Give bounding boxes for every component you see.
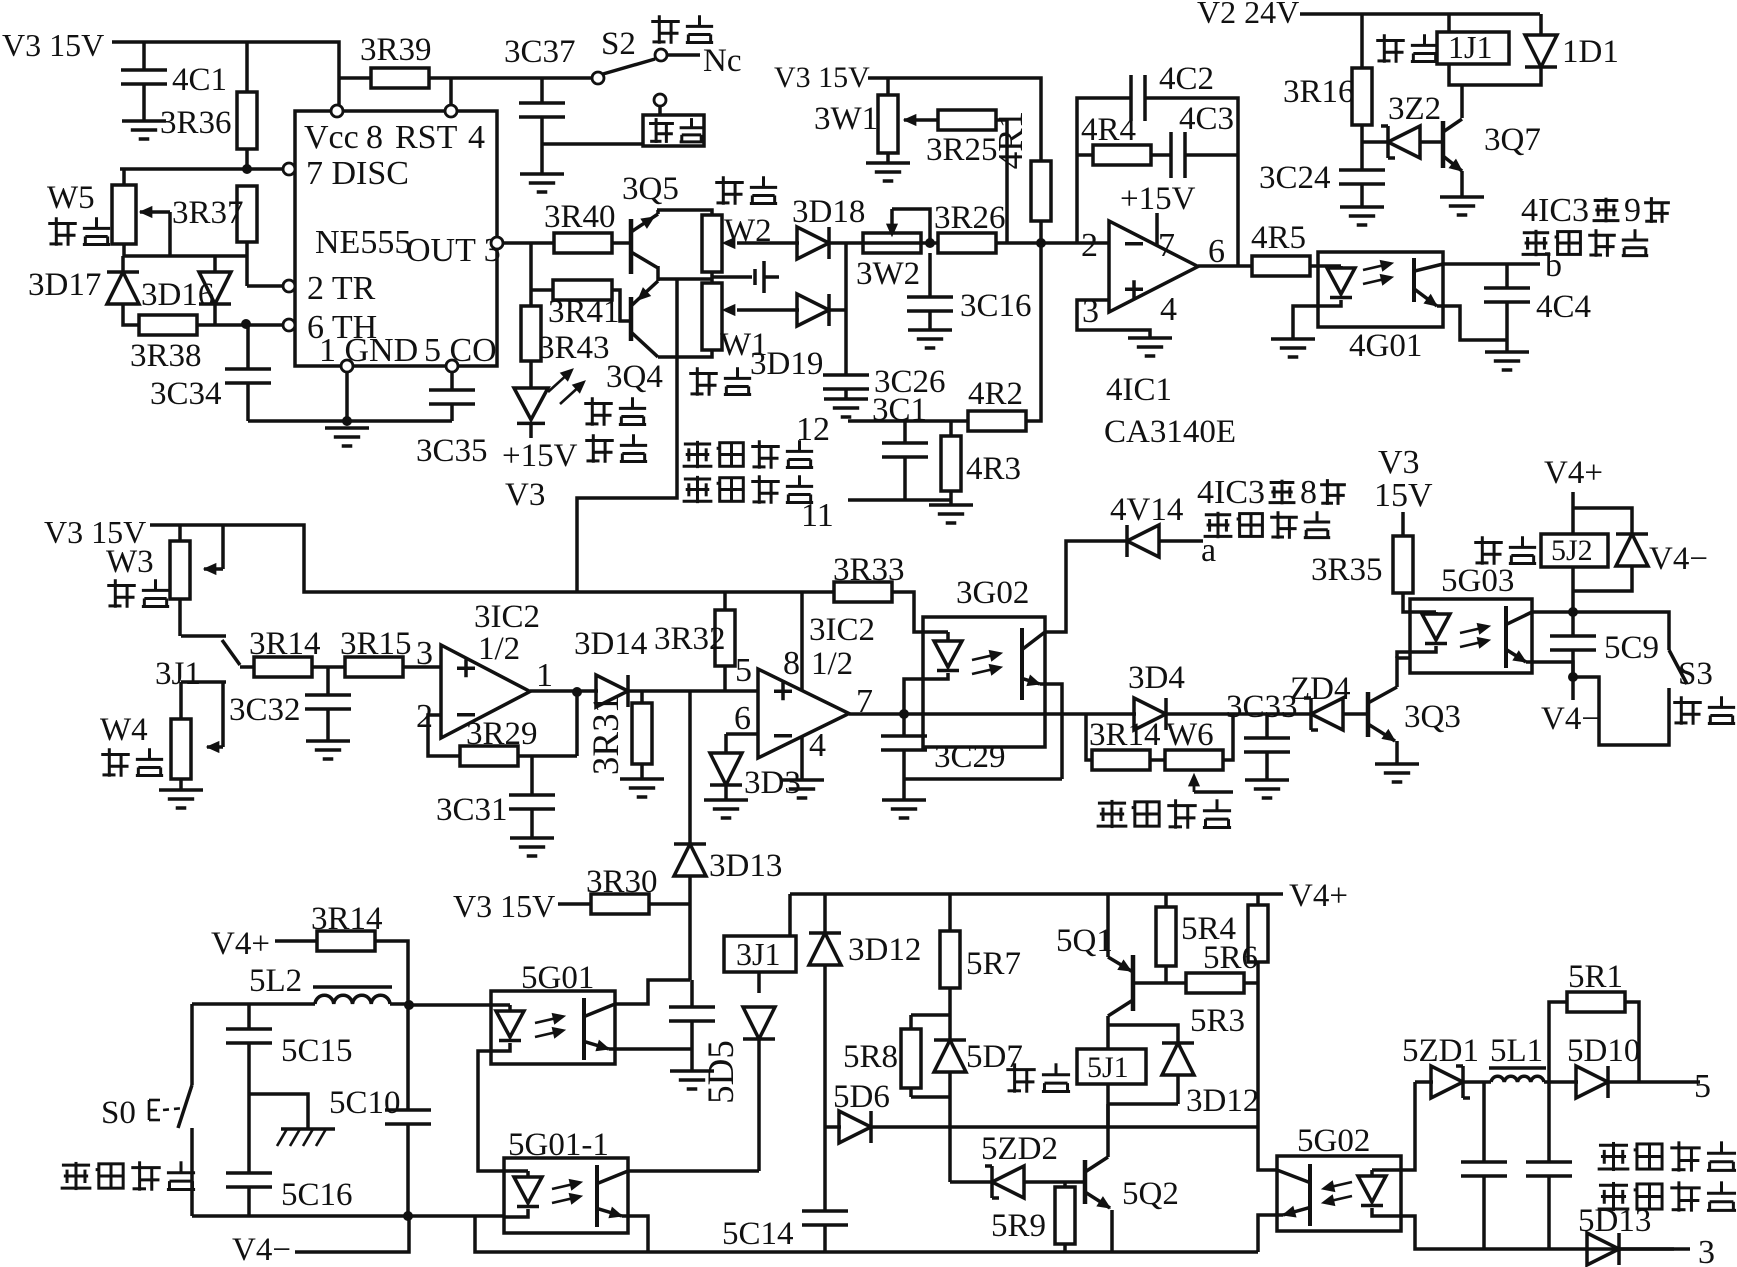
potentiometer 3W2 track <box>863 233 921 253</box>
label 3 <box>1698 1234 1715 1267</box>
diode 3D18 <box>797 227 829 259</box>
diode 5D5 <box>743 1007 775 1039</box>
wire to 4C1 <box>142 42 146 70</box>
svg-text:V4+: V4+ <box>1544 455 1603 491</box>
label 5C16 <box>281 1177 353 1213</box>
ground under 3C31 <box>510 838 554 856</box>
wire OUT to 3R40 <box>503 241 554 245</box>
label 1/2 <box>478 631 520 667</box>
wire 4C3 to right <box>1185 153 1238 157</box>
label 5G01 <box>521 960 594 996</box>
label 3C31 <box>436 792 508 828</box>
pin 3 loop of 4IC1 <box>1077 300 1150 338</box>
label 3J1 <box>155 656 201 692</box>
label label torch-button <box>61 1161 195 1190</box>
wire 5L2 right <box>390 1002 409 1006</box>
wire to 4R4 <box>1077 153 1093 157</box>
wire rail to W3 <box>178 525 182 541</box>
label 5D10 <box>1567 1033 1640 1069</box>
switch S0 torch button <box>149 1085 192 1128</box>
label V2 24V <box>1197 0 1299 30</box>
svg-text:5G01: 5G01 <box>521 960 594 996</box>
wire filter cap down <box>690 1021 694 1071</box>
svg-text:3D12: 3D12 <box>848 932 921 968</box>
switch S2 pulse contact <box>655 49 667 61</box>
wire 5G01-1 emitter to rail <box>628 1216 648 1252</box>
diode 3D19 <box>797 294 829 326</box>
potentiometer W3 <box>170 541 190 599</box>
wire rail to 3J1 box <box>788 894 792 936</box>
svg-text:W6: W6 <box>1166 717 1214 753</box>
relay contact 3J1 <box>181 636 240 682</box>
resistor 3R25 <box>938 110 996 130</box>
svg-text:5R3: 5R3 <box>1190 1003 1245 1039</box>
switch S3 blade <box>1669 650 1687 684</box>
svg-text:5Q1: 5Q1 <box>1056 923 1113 959</box>
diode 3D16 <box>199 272 231 304</box>
label 3IC2 <box>809 612 875 648</box>
svg-text:3W1: 3W1 <box>814 101 878 137</box>
wire column to 5C14 <box>823 1127 827 1211</box>
box DC mode <box>643 115 704 146</box>
svg-text:3D13: 3D13 <box>709 848 782 884</box>
svg-text:3D18: 3D18 <box>792 194 865 230</box>
ground under 4C1 <box>122 121 166 139</box>
label 1 <box>536 657 553 694</box>
svg-text:3R40: 3R40 <box>544 199 616 235</box>
label 2 <box>1081 227 1098 264</box>
label label shang-sheng (rise) <box>107 579 169 608</box>
IC NE555 timer U-3IC1 <box>295 111 501 369</box>
wire DISC node <box>120 167 283 171</box>
label S0 <box>101 1095 136 1131</box>
ground under 5G01 cap <box>670 1071 714 1089</box>
wire 5J1 down <box>1106 1084 1110 1104</box>
capacitor 3C29 <box>881 736 927 750</box>
svg-text:ZD4: ZD4 <box>1290 671 1351 707</box>
label 5G01-1 <box>508 1127 609 1163</box>
label V4− <box>1541 701 1600 737</box>
wire 4R1 to node <box>1039 221 1043 243</box>
label 1D1 <box>1562 34 1619 70</box>
svg-text:5L2: 5L2 <box>249 963 302 999</box>
wire 3D19 out <box>828 308 846 312</box>
label label zhi-liu (DC) <box>649 118 703 143</box>
wire 3R14b to W6 <box>1150 758 1165 762</box>
label V3 15V <box>774 61 870 94</box>
svg-text:5R8: 5R8 <box>843 1039 898 1075</box>
wire node to 5G01 <box>409 1003 491 1007</box>
wire node to W5 <box>122 169 126 185</box>
svg-text:1/2: 1/2 <box>811 646 853 682</box>
label 3C34 <box>150 376 222 412</box>
wire 3R43 to LED <box>529 361 533 388</box>
wire 5Q1 base <box>1135 981 1186 985</box>
label W3 <box>106 544 154 580</box>
wire 5ZD1 to 5L1 <box>1462 1080 1491 1084</box>
svg-text:5ZD2: 5ZD2 <box>981 1131 1058 1167</box>
resistor 3R14 ramp <box>254 657 312 677</box>
label label qi-hu (arc start) <box>1006 1063 1070 1092</box>
wire V4+ to 3R14c <box>275 939 317 943</box>
wire 5ZD2 to 5Q2 <box>1023 1180 1083 1184</box>
label 3R14 <box>249 626 321 662</box>
diode 5D6 <box>839 1111 871 1143</box>
wire 3R32 down <box>723 666 727 691</box>
capacitor 3C26 <box>823 375 869 389</box>
label 3Z2 <box>1388 91 1441 127</box>
label W4 <box>100 712 148 748</box>
svg-text:3W2: 3W2 <box>856 256 920 292</box>
wire 4R3 bottom <box>949 491 953 505</box>
wire to 5D6 <box>825 1125 841 1129</box>
label 5Q2 <box>1122 1176 1179 1212</box>
label 3C35 <box>416 433 488 469</box>
wire rail to 1D1 <box>1539 14 1543 36</box>
wire to DC contact box <box>542 142 643 146</box>
svg-text:4IC3: 4IC3 <box>1521 192 1589 229</box>
potentiometer W5 <box>112 185 136 244</box>
label 11 <box>801 497 834 534</box>
svg-text:3D3: 3D3 <box>744 765 801 801</box>
label label shuai-jian (decay) <box>101 748 163 777</box>
label ZD4 <box>1290 671 1351 707</box>
svg-text:3C35: 3C35 <box>416 433 488 469</box>
ground under 3W1 <box>866 163 910 181</box>
wire to chassis ground <box>249 1094 308 1129</box>
ground under 3C26 <box>824 399 868 417</box>
wire node7 to 3C29 <box>902 714 906 736</box>
wire to 5ZD2 <box>950 1180 993 1184</box>
optocoupler 3G02 <box>923 617 1045 747</box>
svg-text:3G02: 3G02 <box>956 575 1029 611</box>
svg-text:3IC2: 3IC2 <box>809 612 875 648</box>
svg-text:5D10: 5D10 <box>1567 1033 1640 1069</box>
wire op-amp output <box>1198 264 1252 268</box>
svg-text:5R1: 5R1 <box>1568 959 1623 995</box>
label label gas-delay <box>1097 799 1231 828</box>
svg-text:S3: S3 <box>1678 656 1713 692</box>
label label zhi-shi (indicator) <box>585 434 647 463</box>
optocoupler 5G01 <box>491 991 615 1064</box>
svg-text:2 TR: 2 TR <box>307 270 376 307</box>
wire 3G02 LED cathode to node7 <box>904 679 923 714</box>
label label detect-signal <box>683 475 814 504</box>
wire bracket top <box>911 1013 950 1017</box>
wire 5G01 emitter <box>615 1047 692 1051</box>
svg-text:3: 3 <box>416 635 433 672</box>
svg-text:4C3: 4C3 <box>1179 101 1234 137</box>
svg-text:5G02: 5G02 <box>1297 1123 1370 1159</box>
wire 5G03 LED cathode <box>1397 652 1410 658</box>
ground under 4IC1 pin3 <box>1128 338 1172 356</box>
diode 5D7 <box>934 1040 966 1072</box>
relay coil 5J1 <box>1077 1049 1146 1084</box>
label 3R15 <box>340 626 412 662</box>
ground under 3C29 <box>882 800 926 818</box>
svg-text:5Q2: 5Q2 <box>1122 1176 1179 1212</box>
label W5 <box>47 180 95 216</box>
wire left column down <box>190 1004 194 1085</box>
label V3 <box>1378 444 1420 481</box>
svg-text:+15V: +15V <box>1120 181 1196 217</box>
svg-text:9: 9 <box>1624 192 1641 229</box>
wire pots midpoint to transistors <box>658 277 713 281</box>
diode 5D10 <box>1576 1066 1608 1098</box>
potentiometer W1 <box>702 283 722 350</box>
wire W4 to ground <box>179 779 183 790</box>
wire pin8 supply <box>800 592 804 691</box>
diode 3D4 <box>1134 698 1166 730</box>
wire 3W2 left junction <box>863 241 938 245</box>
svg-text:4: 4 <box>468 119 485 156</box>
svg-text:3: 3 <box>1698 1234 1715 1267</box>
svg-text:3R33: 3R33 <box>833 552 905 588</box>
svg-text:b: b <box>1545 247 1562 284</box>
svg-text:5C15: 5C15 <box>281 1033 353 1069</box>
wire 5Q2 collector up <box>1106 1104 1110 1157</box>
op-amp 3IC2 second half <box>758 669 849 758</box>
svg-text:3C34: 3C34 <box>150 376 222 412</box>
ground under 3C16 <box>908 330 952 348</box>
label 5R9 <box>991 1208 1046 1244</box>
label 3G02 <box>956 575 1029 611</box>
svg-text:3R41: 3R41 <box>548 294 620 330</box>
label 3D13 <box>709 848 782 884</box>
label 5C9 <box>1604 630 1659 666</box>
wire 3R14 to 3R15 <box>312 665 345 669</box>
svg-text:5D6: 5D6 <box>833 1079 890 1115</box>
svg-text:3Q3: 3Q3 <box>1404 699 1461 735</box>
ground under 3C33 <box>1245 780 1289 798</box>
op-amp 4IC1 CA3140E <box>1109 221 1198 312</box>
wire 1J1/1D1 bottom <box>1449 64 1541 85</box>
wire to 3C31 <box>530 756 534 795</box>
wire 5R6 column down <box>1256 962 1260 1127</box>
svg-text:3R14: 3R14 <box>311 901 383 937</box>
label 3C26 <box>874 364 946 400</box>
capacitor 5C emitter filter <box>669 1007 715 1021</box>
wire 3R33 to 3G02 LED <box>892 592 923 632</box>
svg-text:3D4: 3D4 <box>1128 660 1185 696</box>
diode 3D3 <box>710 753 742 785</box>
svg-text:3R43: 3R43 <box>538 330 610 366</box>
capacitor 5C9 <box>1550 636 1596 650</box>
wire to 3D16 <box>213 256 217 271</box>
svg-text:3IC2: 3IC2 <box>474 599 540 635</box>
svg-text:2: 2 <box>1081 227 1098 264</box>
node 3W2 output <box>925 238 935 248</box>
wire 3W1 to ground <box>886 153 890 163</box>
wiper of W4 <box>207 682 223 752</box>
svg-text:1: 1 <box>536 657 553 694</box>
wire 3C35 to rail <box>450 404 454 421</box>
svg-text:3Q4: 3Q4 <box>606 359 663 395</box>
label label ji-zhi (base value) <box>689 367 751 396</box>
wire 3R38 to TH node <box>197 323 247 327</box>
zener 3Z2 <box>1381 126 1420 158</box>
label 4C3 <box>1179 101 1234 137</box>
pin 6 TH <box>283 319 295 331</box>
svg-text:4: 4 <box>809 727 826 764</box>
wire 3C31 down <box>530 809 534 838</box>
wire 3R41 to 3Q4 base <box>612 290 631 321</box>
svg-text:5L1: 5L1 <box>1490 1033 1543 1069</box>
label 3R31 rotated <box>586 695 627 775</box>
pin 7 DISC <box>283 163 295 175</box>
label 4 <box>809 727 826 764</box>
resistor 4R2 <box>968 411 1026 431</box>
label 5Q1 <box>1056 923 1113 959</box>
wire 3C34 to gnd rail <box>246 383 250 421</box>
resistor 3R14 torch <box>317 931 375 951</box>
wire to TR pin <box>247 284 283 288</box>
diode 1D1 <box>1525 35 1557 67</box>
svg-text:5 CO: 5 CO <box>424 332 497 369</box>
label 5R6 <box>1203 940 1258 976</box>
label 3R38 <box>130 338 202 374</box>
label 3D19 <box>750 346 823 382</box>
label 1/2 <box>811 646 853 682</box>
svg-text:NE555: NE555 <box>315 224 411 261</box>
wire to 3C1 <box>903 421 907 443</box>
potentiometer 3W1 <box>878 95 898 153</box>
wire 3D16 down <box>213 305 217 325</box>
svg-text:V3 15V: V3 15V <box>774 61 870 94</box>
svg-text:5G01-1: 5G01-1 <box>508 1127 609 1163</box>
wire 4R4 to 4C3 <box>1151 153 1171 157</box>
ground under 3C37 <box>520 174 564 192</box>
resistor 3R41 <box>553 280 612 300</box>
bias cell between W2 and W1 <box>712 261 779 293</box>
wire 5D7 bottom <box>948 1073 952 1097</box>
svg-text:3R25: 3R25 <box>926 132 998 168</box>
svg-text:5C16: 5C16 <box>281 1177 353 1213</box>
transistor 3Q5 <box>631 210 658 281</box>
resistor 4R4 <box>1093 145 1151 165</box>
resistor 5R1 <box>1567 992 1625 1012</box>
potentiometer W6 <box>1165 750 1223 770</box>
svg-text:V3 15V: V3 15V <box>2 27 104 63</box>
capacitor 5C15 <box>226 1029 272 1043</box>
label 3C1 <box>872 392 927 428</box>
wire node to 5C10 <box>406 1005 410 1110</box>
capacitor 3C32 <box>305 695 351 709</box>
svg-text:W5: W5 <box>47 180 95 216</box>
label label tiao-pin (FM) <box>48 217 110 246</box>
label 3R36 <box>160 105 232 141</box>
svg-text:V4−: V4− <box>1649 541 1708 577</box>
svg-text:3C29: 3C29 <box>934 739 1006 775</box>
wire V2 rail <box>1300 12 1540 16</box>
svg-text:3R38: 3R38 <box>130 338 202 374</box>
label 3R41 <box>548 294 620 330</box>
label 8 <box>783 645 800 682</box>
svg-text:3R35: 3R35 <box>1311 552 1383 588</box>
wire to 3C24 <box>1360 142 1364 170</box>
label 3R37 <box>172 195 244 231</box>
svg-text:1 GND: 1 GND <box>319 332 418 369</box>
wire 3C26 down <box>844 389 848 399</box>
wire V3 rail to NE555 Vcc <box>112 42 339 105</box>
label 7 <box>856 683 873 720</box>
label label jian-qi (gas check) <box>1673 696 1735 725</box>
wire bottom V4- run <box>192 1214 504 1218</box>
svg-text:3D17: 3D17 <box>28 267 101 303</box>
label V3 <box>505 477 545 513</box>
label 3W2 <box>856 256 920 292</box>
zener 5ZD1 <box>1431 1066 1470 1098</box>
resistor 4R5 <box>1252 256 1310 276</box>
wire 3C29 down <box>902 750 906 800</box>
wire rail to 3D12L <box>823 894 827 933</box>
label 4IC3 pin9 feedback line1 <box>1521 192 1670 229</box>
wire V3 to 3R35 <box>1401 512 1405 536</box>
capacitor 3C34 <box>225 369 271 383</box>
svg-text:4IC1: 4IC1 <box>1106 372 1172 408</box>
wire Vcc line to 3R39 <box>339 76 371 80</box>
svg-text:3Q7: 3Q7 <box>1484 122 1541 158</box>
svg-text:3D12: 3D12 <box>1186 1083 1259 1119</box>
wire 3D18 to 3W2 <box>828 241 863 245</box>
wire 5G02 LED bottom to sense return <box>1401 1216 1674 1249</box>
ground under 4R3 <box>929 505 973 523</box>
wire S3 return loop <box>1573 677 1669 745</box>
wire GND pin down <box>345 372 349 421</box>
label 5R7 <box>966 946 1021 982</box>
capacitor 3C24 <box>1339 170 1385 184</box>
wire 5R9 bottom <box>1063 1244 1067 1252</box>
resistor 3R35 <box>1393 536 1413 593</box>
svg-text:3D14: 3D14 <box>574 626 647 662</box>
capacitor 3C1 <box>882 443 928 457</box>
label W6 <box>1166 717 1214 753</box>
wire to RST pin <box>449 78 453 105</box>
transistor 5Q1 <box>1108 955 1133 1016</box>
wire 5D6 run <box>870 1125 1258 1129</box>
label label control-signal <box>1204 511 1331 539</box>
node TH junction <box>241 319 251 329</box>
wire to TH pin <box>247 323 283 327</box>
relay coil 3J1 <box>724 936 796 972</box>
wire 5L2 left <box>192 1002 315 1006</box>
wire feedback left <box>1077 98 1131 243</box>
svg-text:5: 5 <box>735 652 752 689</box>
wiper of W5 <box>140 207 170 256</box>
wire pin5 node down to 3D13 <box>688 691 692 843</box>
wire 3D13 to bottom block <box>688 877 692 980</box>
node inverting input <box>1036 238 1046 248</box>
wire 5R1 to output <box>1625 1002 1639 1082</box>
label 3 <box>416 635 433 672</box>
wire contact to W4 <box>179 682 183 719</box>
svg-text:CA3140E: CA3140E <box>1104 414 1236 450</box>
wire 5C9 bottom <box>1571 650 1575 677</box>
wire V4+ rail bottom <box>790 892 1283 896</box>
svg-text:1/2: 1/2 <box>478 631 520 667</box>
wire 3D12L down <box>823 965 827 1127</box>
svg-text:5R9: 5R9 <box>991 1208 1046 1244</box>
resistor 3R33 <box>834 582 892 602</box>
svg-text:3C32: 3C32 <box>229 692 301 728</box>
label 3R35 <box>1311 552 1383 588</box>
wire V3 to 3R30 <box>558 902 591 906</box>
wire op-amp2 output run <box>849 712 1136 716</box>
svg-text:3Q5: 3Q5 <box>622 171 679 207</box>
svg-text:7: 7 <box>1158 227 1175 264</box>
label CA3140E <box>1104 414 1236 450</box>
wire input 12 <box>848 419 968 423</box>
